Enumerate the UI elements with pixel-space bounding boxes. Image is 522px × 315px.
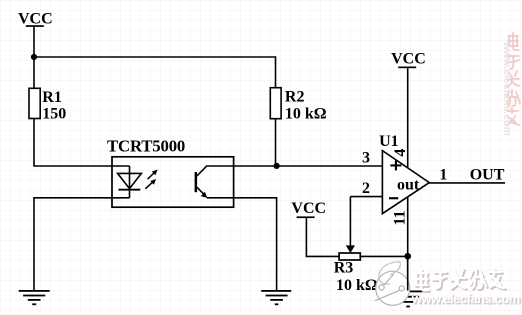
ground (right) [393, 291, 423, 308]
svg-text:2: 2 [362, 180, 370, 197]
svg-text:VCC: VCC [391, 50, 426, 67]
watermark text www.elecfans.com [411, 291, 521, 306]
output wire pin 1 [429, 182, 505, 184]
potentiometer body R3 [339, 253, 360, 260]
node junction collector/R2/pin3 [274, 163, 280, 169]
resistor R1 [29, 88, 66, 122]
power symbol VCC (top-left) [18, 11, 53, 28]
svg-text:10 kΩ: 10 kΩ [336, 277, 378, 294]
op-amp triangle body [382, 151, 429, 214]
wire emitter to ground drop [207, 198, 277, 290]
svg-text:U1: U1 [379, 133, 399, 150]
wire VCC1 down through R1 top [33, 27, 35, 88]
resistor body R1 [29, 88, 40, 118]
svg-text:150: 150 [42, 106, 66, 123]
wire R2 bottom to node [275, 119, 277, 166]
wire R3 right lead to node [360, 255, 407, 257]
optocoupler TCRT5000 box [107, 137, 234, 208]
svg-text:www.elecfans.com: www.elecfans.com [411, 291, 521, 306]
svg-text:11: 11 [392, 210, 409, 225]
wire top rail to R2 [34, 57, 276, 88]
phototransistor Q1 inside optocoupler [195, 166, 208, 198]
svg-text:3: 3 [362, 150, 370, 167]
wire VCC to op-amp pin 4 [407, 68, 409, 168]
svg-text:VCC: VCC [291, 200, 326, 217]
potentiometer R3 [334, 253, 378, 294]
wire LED cathode to left ground [34, 198, 130, 290]
resistor R2 [270, 88, 326, 123]
watermark logo circle [375, 262, 410, 305]
watermark text 电子发烧友 (stylized) [415, 269, 506, 292]
wire node down to right ground [407, 256, 409, 290]
svg-text:out: out [397, 177, 420, 194]
wire collector to node and op-amp pin 3 [206, 165, 383, 167]
svg-text:R3: R3 [334, 260, 354, 277]
VCC power bar [398, 67, 416, 69]
svg-text:4: 4 [392, 149, 409, 157]
wire pin2 down to R3 wiper arrow [346, 197, 355, 253]
ground (middle, emitter) [261, 290, 291, 305]
inverting input minus mark [389, 197, 398, 199]
op-amp U1 [379, 133, 429, 226]
node junction R3/pin11/ground [404, 253, 411, 260]
ground (left) [19, 290, 50, 305]
watermark vertical 电子发烧友 (right edge, very faint) [507, 33, 520, 125]
wire VCC3 down and right to R3 left lead [306, 218, 339, 256]
LED emission arrow 2 [145, 179, 156, 189]
power symbol VCC (op-amp supply) [391, 50, 426, 68]
svg-text:1: 1 [439, 167, 447, 184]
resistor body R2 [270, 88, 281, 119]
svg-text:R1: R1 [42, 89, 62, 106]
svg-text:OUT: OUT [470, 167, 505, 184]
svg-text:VCC: VCC [18, 11, 53, 28]
wire op-amp pin 2 [350, 196, 382, 198]
optocoupler body outline [112, 157, 234, 207]
svg-text:www.elecfans.com: www.elecfans.com [501, 41, 513, 136]
wire op-amp pin 11 down to node [407, 197, 409, 256]
wire R1 bottom to optocoupler LED anode [34, 119, 130, 167]
svg-text:10 kΩ: 10 kΩ [285, 105, 327, 122]
power symbol VCC (R3 supply) [291, 200, 326, 218]
VCC power bar [297, 216, 315, 218]
VCC power bar [26, 25, 44, 27]
wire node to right ground (over watermark) [407, 256, 409, 290]
node junction at VCC rail [31, 54, 37, 60]
LED emission arrow 1 [148, 170, 158, 180]
svg-text:R2: R2 [285, 88, 305, 105]
non-inverting input plus mark [390, 164, 401, 166]
svg-text:TCRT5000: TCRT5000 [107, 137, 185, 156]
LED D1 inside optocoupler [118, 166, 142, 198]
